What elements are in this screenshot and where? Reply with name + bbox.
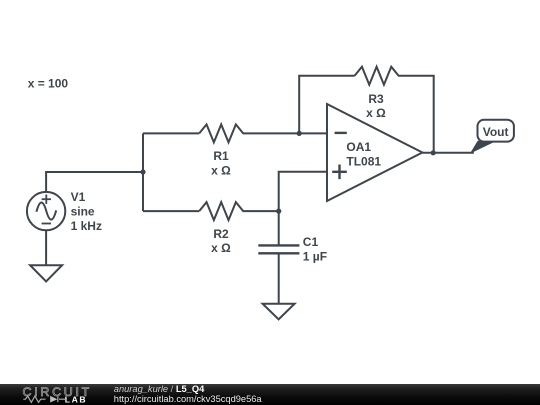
svg-text:Vout: Vout	[483, 125, 509, 139]
svg-text:V1: V1	[71, 190, 86, 204]
svg-text:R2: R2	[213, 227, 229, 241]
svg-text:http://circuitlab.com/ckv35cqd: http://circuitlab.com/ckv35cqd9e56a	[114, 394, 263, 404]
svg-text:x Ω: x Ω	[366, 106, 386, 120]
svg-text:x Ω: x Ω	[211, 164, 231, 178]
svg-text:anurag_kurle / L5_Q4: anurag_kurle / L5_Q4	[114, 384, 205, 394]
svg-text:1 kHz: 1 kHz	[71, 219, 102, 233]
svg-text:x = 100: x = 100	[28, 77, 69, 91]
svg-text:1 µF: 1 µF	[303, 249, 327, 263]
svg-text:R3: R3	[368, 92, 384, 106]
svg-text:LAB: LAB	[65, 394, 87, 404]
svg-text:OA1: OA1	[346, 140, 371, 154]
svg-text:C1: C1	[303, 235, 319, 249]
svg-text:x Ω: x Ω	[211, 241, 231, 255]
svg-text:TL081: TL081	[346, 155, 381, 169]
svg-text:sine: sine	[71, 204, 95, 218]
svg-text:R1: R1	[213, 149, 229, 163]
